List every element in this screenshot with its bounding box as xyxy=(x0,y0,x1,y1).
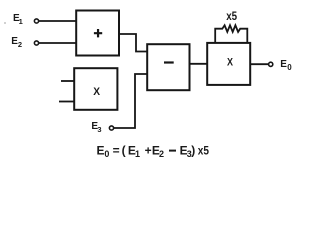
plus symbol in U1 xyxy=(94,29,102,37)
svg-text:1: 1 xyxy=(19,17,23,26)
input stub 1 of U3 xyxy=(61,80,74,82)
svg-text:X: X xyxy=(93,86,100,98)
svg-text:E: E xyxy=(97,143,105,157)
terminal E2 xyxy=(34,41,38,45)
input stub 2 of U3 xyxy=(59,101,74,103)
terminal E0 xyxy=(269,62,273,66)
svg-text:3: 3 xyxy=(97,125,101,134)
wire E1 to summer xyxy=(39,20,76,22)
subtractor U2 box xyxy=(147,44,189,90)
svg-text:X: X xyxy=(227,57,234,69)
wire summer output to subtractor xyxy=(119,34,147,52)
resistor R1 feedback xyxy=(215,25,247,43)
svg-text:0: 0 xyxy=(287,63,292,72)
gain block U4 box xyxy=(207,43,250,85)
svg-text:2: 2 xyxy=(159,149,164,159)
terminal E3 xyxy=(109,126,113,130)
caption formula E0 = ( E1 + E2 - E3 ) x5 xyxy=(97,143,210,159)
minus symbol in U2 xyxy=(164,61,174,63)
svg-text:): ) xyxy=(191,143,195,157)
svg-text:1: 1 xyxy=(135,149,140,159)
svg-text:2: 2 xyxy=(18,40,22,49)
svg-text:0: 0 xyxy=(104,149,109,159)
svg-text:E: E xyxy=(280,59,287,70)
wire E3 to subtractor xyxy=(114,74,147,128)
svg-text:(: ( xyxy=(122,143,126,157)
summer U1 box xyxy=(76,11,119,56)
terminal E1 xyxy=(34,19,38,23)
wire subtractor to gain block xyxy=(190,63,208,65)
wire E2 to summer xyxy=(39,42,76,44)
speck artifact xyxy=(4,22,6,24)
svg-text:=: = xyxy=(113,143,120,157)
wire output to E0 xyxy=(250,63,268,65)
svg-text:x5: x5 xyxy=(226,9,237,23)
svg-text:x5: x5 xyxy=(198,143,209,157)
multiplier U3 box xyxy=(74,68,117,110)
svg-text:+: + xyxy=(145,143,152,157)
